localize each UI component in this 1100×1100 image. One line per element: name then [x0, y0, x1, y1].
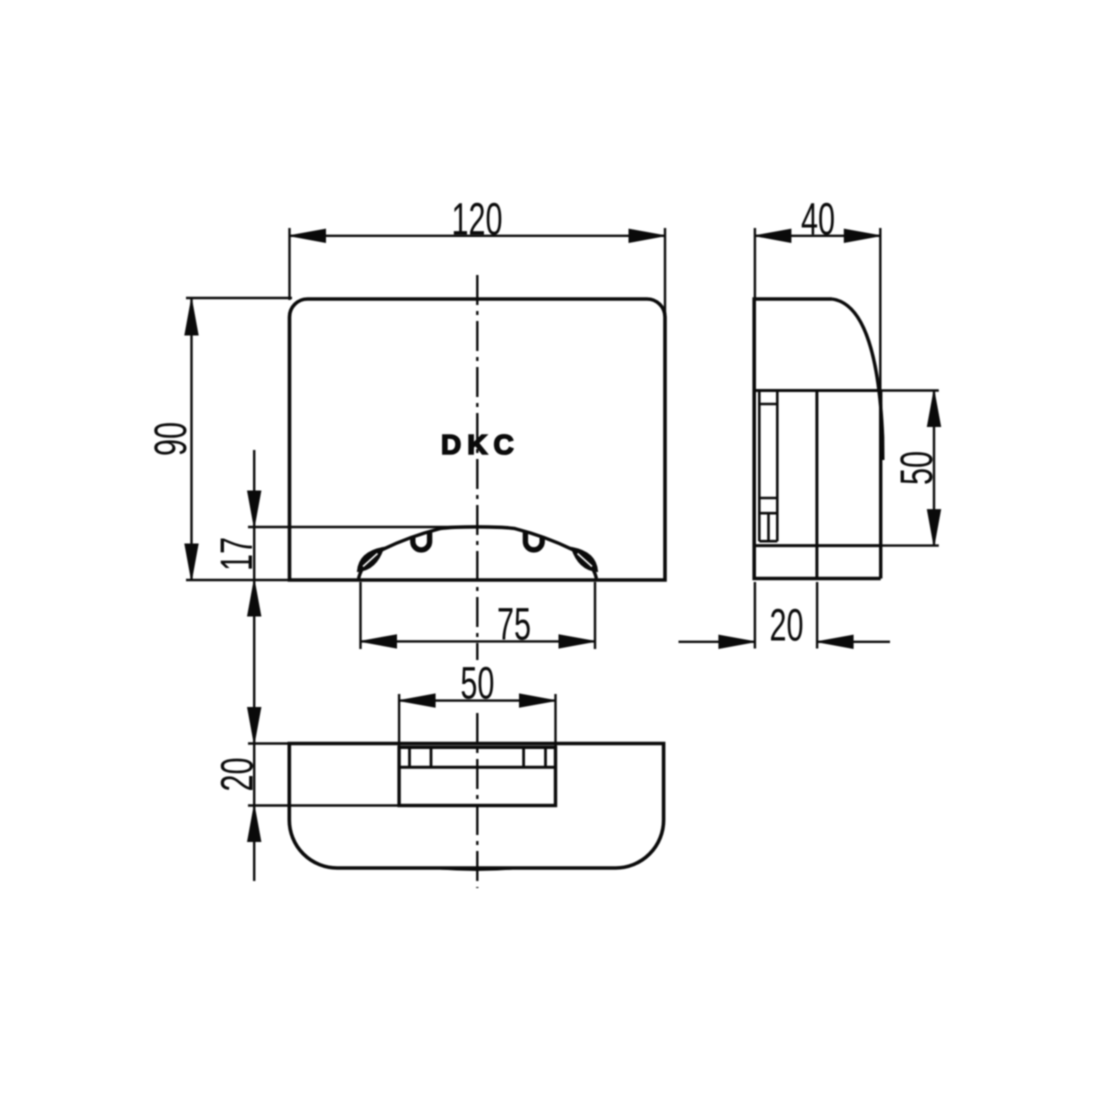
svg-text:90: 90 [146, 422, 196, 456]
side inner bottom line [754, 544, 880, 547]
dim 75 [359, 582, 361, 649]
protrusion inner line [399, 766, 555, 769]
side right edge [879, 391, 882, 579]
side strip [758, 391, 761, 542]
svg-text:50: 50 [460, 659, 494, 709]
svg-text:17: 17 [212, 537, 262, 571]
dim 17 and 20 shared line [253, 450, 255, 881]
bottom bump [441, 868, 512, 869]
arch cable entry [359, 527, 597, 579]
svg-text:40: 40 [801, 195, 835, 245]
bottom view outline [289, 744, 663, 869]
svg-text:DKC: DKC [441, 429, 520, 460]
dim 90 [186, 297, 292, 299]
leaf left [358, 548, 383, 571]
dim 20 side bottom [754, 582, 756, 649]
dim 50 side [881, 389, 939, 391]
dim 50 bottom [398, 694, 400, 747]
leaf right [572, 548, 597, 571]
dim 40 [754, 228, 756, 300]
dim 120 [288, 228, 290, 300]
svg-text:20: 20 [769, 601, 803, 651]
side vertical 20 line [815, 391, 818, 579]
slot right [525, 532, 542, 550]
protrusion rect [399, 747, 555, 805]
svg-text:20: 20 [213, 757, 263, 791]
svg-text:75: 75 [497, 600, 531, 650]
slot left [413, 532, 430, 550]
front view outline [290, 299, 666, 580]
leaf left inner [363, 554, 378, 567]
svg-text:50: 50 [892, 451, 942, 485]
dim 20 left bottom view [248, 742, 290, 744]
leaf right inner [578, 554, 593, 567]
centerline front/bottom [476, 275, 478, 660]
svg-text:120: 120 [451, 195, 502, 245]
side inner top line [754, 389, 880, 392]
side view outline [754, 299, 881, 579]
side outer shell curve [832, 299, 883, 460]
